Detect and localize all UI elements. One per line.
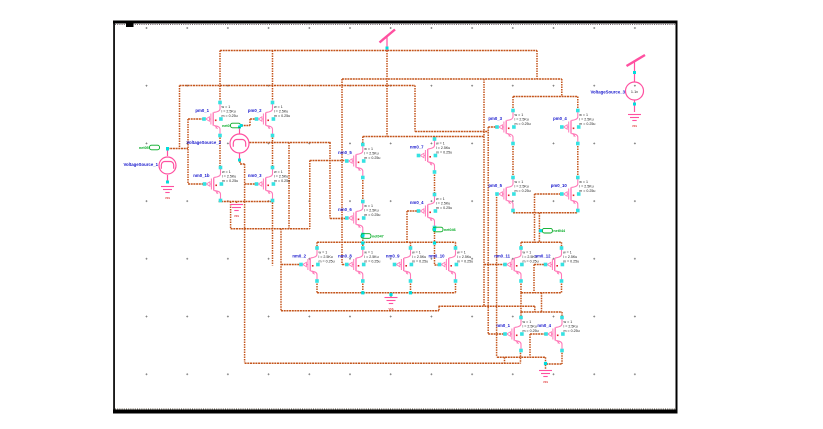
wire pm0_5 gate column [496,194,498,357]
svg-text:w = 1: w = 1 [364,147,373,151]
svg-text:w = 1: w = 1 [436,197,445,201]
wire nm0_4 gate [530,333,546,335]
wire [219,200,221,202]
transistor nm0_7 [410,137,452,174]
wire long vertical left [280,229,282,311]
voltage source VoltageSource_1 [123,148,176,184]
wire jog [438,306,440,311]
transistor nm0_4 [537,316,579,353]
wire pm0_2 to nm0_3 [272,135,274,168]
svg-text:w = 1: w = 1 [364,204,373,208]
wire VS1 to H3 [179,86,181,149]
wire nm0_6 gate stub [330,218,347,220]
transistor nm0_4 [410,193,452,230]
wire nm0_2 gate [281,264,301,266]
wire long vertical [341,79,343,265]
svg-text:m = 0.25u: m = 0.25u [412,259,428,263]
wire nm0_1 gate [488,333,505,335]
svg-text:w = 1: w = 1 [364,251,373,255]
wire pm0_2 gate [250,118,257,120]
svg-text:w = 1: w = 1 [515,180,524,184]
wire [250,142,332,144]
wire [561,79,563,97]
svg-text:l = 2.5Ku: l = 2.5Ku [364,208,378,212]
wire nm0_8 gate stub [342,264,347,266]
wire gate link [187,119,189,184]
wire [362,235,364,249]
wire VS2 minus jog [240,163,245,165]
ground under row box [385,298,398,304]
wire [362,281,364,293]
svg-text:m = 0.25u: m = 0.25u [222,179,238,183]
svg-text:m = 0.25u: m = 0.25u [515,189,531,193]
svg-text:w = 1: w = 1 [564,320,573,324]
wire pair box bottom [521,292,562,294]
wire VS2 minus [239,162,241,165]
svg-text:m = 0.25u: m = 0.25u [457,259,473,263]
wire [439,305,535,307]
svg-text:nm0_8: nm0_8 [338,254,352,259]
svg-text:l = 2.5Ku: l = 2.5Ku [364,255,378,259]
svg-text:l = 2.5Ku: l = 2.5Ku [222,174,236,178]
junction pin [433,241,436,244]
ground mid left [230,205,243,211]
wire [288,143,290,229]
transistor pm0_10 [551,176,596,213]
svg-text:nm0_9: nm0_9 [386,254,400,259]
wire [536,51,538,80]
wire jog [504,357,506,363]
wire long bottom B [245,362,521,364]
pin net055 [240,124,243,127]
wire box edge [455,242,457,248]
junction pin [361,241,364,244]
wire nm0_10 gate stub [435,264,440,266]
svg-text:l = 2.5Ku: l = 2.5Ku [319,255,333,259]
transistor nm0_12 [534,246,579,283]
wire [230,202,232,229]
wire [362,137,364,145]
wire nm0_4m gate stub [407,210,419,212]
pin net046 [433,228,436,231]
wire net044 drop b [538,213,540,243]
wire H2 [342,78,562,80]
vdd symbol top [380,30,396,51]
svg-text:nm0_3: nm0_3 [248,173,262,178]
transistor nm0_2 [292,246,334,283]
svg-text:nm0_10: nm0_10 [428,254,445,259]
svg-text:nm0_1b: nm0_1b [193,173,210,178]
wire stub [410,242,412,248]
wire nm0_3 gate [245,183,257,185]
wire nm0_12 gate stub [534,264,546,266]
svg-text:VoltageSource_3: VoltageSource_3 [590,90,625,95]
net label net044 [542,228,566,233]
svg-text:l = 2.5Ku: l = 2.5Ku [515,117,529,121]
wire [534,306,536,312]
svg-text:m = 0.25u: m = 0.25u [364,156,380,160]
svg-text:pm0_4: pm0_4 [553,116,567,121]
transistor nm0_1 [496,316,538,353]
junction pin [361,291,364,294]
transistor pm0_4 [553,109,595,146]
wire [406,211,408,242]
svg-text:l = 2.5Ku: l = 2.5Ku [436,201,450,205]
svg-text:m = 0.25u: m = 0.25u [564,329,580,333]
svg-text:m = 0.25u: m = 0.25u [436,150,452,154]
wire [231,228,310,230]
wire [577,97,579,111]
junction pin [544,362,547,365]
wire long vertical right [483,79,485,306]
svg-text:w = 1: w = 1 [579,180,588,184]
pin [166,147,169,150]
svg-text:nm0_5: nm0_5 [338,150,352,155]
frame tick [126,24,134,28]
wire vdd to pm0_1 [219,51,221,104]
wire [434,137,436,140]
transistor pm0_3 [488,109,530,146]
wire pm0_1 to nm0_1b [219,135,221,168]
wire [497,356,546,358]
wire box edge [561,312,563,318]
svg-text:l = 2.5Ku: l = 2.5Ku [274,174,288,178]
wire [309,161,311,229]
svg-text:l = 2.5Ku: l = 2.5Ku [564,324,578,328]
svg-text:pm0_1: pm0_1 [195,108,209,113]
svg-text:w = 1: w = 1 [222,105,231,109]
svg-text:w = 1: w = 1 [222,170,231,174]
wire [512,97,514,111]
ground under VoltageSource_1 [161,187,174,193]
junction pin [389,293,392,296]
wire box edge [316,281,318,293]
svg-text:m = 0.25u: m = 0.25u [364,259,380,263]
wire row box top [317,241,456,243]
svg-text:net044: net044 [553,229,566,233]
svg-text:m = 0.25u: m = 0.25u [523,259,539,263]
wire nm0_11 gate [484,264,505,266]
wire VS1 plus [168,148,189,150]
svg-text:nm0_6: nm0_6 [338,207,352,212]
junction pin [409,291,412,294]
svg-text:w = 1: w = 1 [319,251,328,255]
svg-text:vss: vss [632,124,637,128]
wire vdd to pm0_2 [272,51,274,104]
svg-text:nm0_4: nm0_4 [537,323,551,328]
svg-text:l = 2.5Ku: l = 2.5Ku [563,255,577,259]
wire gnd stub [390,293,392,297]
transistor nm0_9 [386,246,428,283]
transistor pm0_2 [248,101,290,138]
svg-text:VoltageSource_2: VoltageSource_2 [186,140,221,145]
wire pm0_1 gate [188,118,204,120]
svg-text:l = 2.5Ku: l = 2.5Ku [436,146,450,150]
svg-text:vss: vss [543,380,548,384]
svg-text:w = 1: w = 1 [523,251,532,255]
svg-text:m = 0.25u: m = 0.25u [319,259,335,263]
transistor nm0_8 [338,246,380,283]
transistor nm0_3 [248,166,290,203]
svg-text:m = 0.25u: m = 0.25u [274,179,290,183]
voltage source VoltageSource_3 [590,60,643,112]
svg-text:1.1v: 1.1v [631,90,638,94]
wire pair box top [521,241,562,243]
wire long vertical mid [244,164,246,362]
transistor nm0_10 [428,246,473,283]
svg-text:pm0_10: pm0_10 [551,183,568,188]
wire [434,228,436,266]
wire [329,143,331,219]
wire box edge [561,242,563,248]
wire nm0_1b gate [188,183,205,185]
svg-text:m = 0.25u: m = 0.25u [436,206,452,210]
svg-text:m = 0.25u: m = 0.25u [515,122,531,126]
transistor nm0_1b [193,166,238,203]
svg-text:nm0_12: nm0_12 [534,254,551,259]
svg-text:vss: vss [165,196,170,200]
wire box link [541,293,543,312]
svg-text:m = 0.25u: m = 0.25u [274,114,290,118]
wire mirror rail [363,136,484,138]
ground bottom right [539,371,552,377]
svg-text:l = 2.5Ku: l = 2.5Ku [222,109,236,113]
wire nmos source rail [219,201,274,203]
wire pm0_3 gate [488,126,497,128]
svg-text:m = 0.25u: m = 0.25u [222,114,238,118]
svg-text:vss: vss [388,307,393,311]
svg-text:w = 1: w = 1 [412,251,421,255]
svg-text:w = 1: w = 1 [274,105,283,109]
wire pm0_10 gate [535,193,562,195]
wire [434,172,436,195]
wire stub [410,281,412,293]
wire box edge [455,281,457,293]
wire net044 drop [534,194,536,243]
voltage source VoltageSource_2 [186,126,249,162]
svg-text:w = 1: w = 1 [274,170,283,174]
svg-text:l = 2.5Ku: l = 2.5Ku [274,109,288,113]
transistor pm0_5 [488,176,530,213]
svg-text:w = 1: w = 1 [563,251,572,255]
svg-text:vss: vss [234,214,239,218]
ground under VoltageSource_3 [628,115,641,121]
wire box edge [561,281,563,293]
svg-text:m = 0.25u: m = 0.25u [563,259,579,263]
net label VS1 [139,145,159,150]
wire [533,265,535,293]
wire long bottom A [281,310,439,312]
svg-text:l = 2.5Ku: l = 2.5Ku [515,184,529,188]
wire box edge [316,242,318,248]
transistor nm0_11 [494,246,538,283]
wire box edge [520,312,522,318]
svg-text:pm0_5: pm0_5 [488,183,502,188]
wire bot box top [521,311,562,313]
wire row box bottom [317,292,456,294]
svg-text:l = 2.5Ku: l = 2.5Ku [579,117,593,121]
svg-text:nm0_4: nm0_4 [410,200,424,205]
svg-text:pm0_2: pm0_2 [248,108,262,113]
svg-text:m = 0.25u: m = 0.25u [579,122,595,126]
svg-text:l = 2.5Ku: l = 2.5Ku [364,151,378,155]
svg-text:VoltageSource_1: VoltageSource_1 [123,162,158,167]
svg-text:net0: net0 [222,124,230,128]
pin net044 [539,229,542,232]
svg-text:nm0_1: nm0_1 [496,323,510,328]
svg-text:l = 2.5Ku: l = 2.5Ku [523,324,537,328]
transistor nm0_6 [338,200,380,237]
wire pm0_4 to pm0_10 [577,144,579,178]
svg-text:m = 0.25u: m = 0.25u [523,329,539,333]
wire pmos bottom rail [513,212,578,214]
net label net055 [222,123,240,128]
wire box edge [520,281,522,293]
wire box edge [520,353,522,364]
border frame [113,21,678,24]
wire nm0_5 gate [310,160,346,162]
wire [272,200,274,266]
pin net047 [361,235,364,238]
wire pmos drain U [513,96,578,98]
svg-text:m = 0.25u: m = 0.25u [579,189,595,193]
wire vdd top rail [220,50,537,52]
wire bot box bottom [546,363,562,365]
wire vdd drop [386,51,388,137]
wire pm gate column [487,127,489,334]
svg-text:net05: net05 [139,146,149,150]
transistor pm0_1 [195,101,237,138]
wire box edge [561,353,563,364]
wire gnd stub [545,357,547,369]
wire [577,211,579,213]
wire [249,119,251,126]
svg-text:pm0_3: pm0_3 [488,116,502,121]
wire box link [520,293,522,312]
wire [512,211,514,213]
wire [414,86,416,132]
svg-text:nm0_2: nm0_2 [292,254,306,259]
grid dots [146,27,636,375]
transistor nm0_5 [338,143,380,180]
svg-text:l = 2.5Ku: l = 2.5Ku [457,255,471,259]
svg-text:net047: net047 [372,235,384,239]
svg-text:l = 2.5Ku: l = 2.5Ku [579,184,593,188]
svg-text:w = 1: w = 1 [515,113,524,117]
wire input rail H3 [180,85,416,87]
svg-text:nm0_11: nm0_11 [494,254,510,259]
wire [362,178,364,202]
wire pm0_3 to pm0_5 [512,144,514,178]
wire gnd stub [236,202,238,206]
wire net055 link [241,125,250,127]
svg-text:l = 2.5Ku: l = 2.5Ku [412,255,426,259]
net label net047 [361,234,384,239]
svg-text:nm0_7: nm0_7 [410,145,424,150]
wire [415,131,488,133]
vdd symbol VS3 [627,55,646,66]
svg-text:w = 1: w = 1 [436,142,445,146]
svg-text:w = 1: w = 1 [523,320,532,324]
svg-text:net046: net046 [444,228,456,232]
wire [529,334,531,357]
svg-text:w = 1: w = 1 [457,251,466,255]
svg-text:m = 0.25u: m = 0.25u [364,213,380,217]
wire box edge [520,242,522,248]
svg-text:w = 1: w = 1 [579,113,588,117]
net label net046 [433,227,456,232]
